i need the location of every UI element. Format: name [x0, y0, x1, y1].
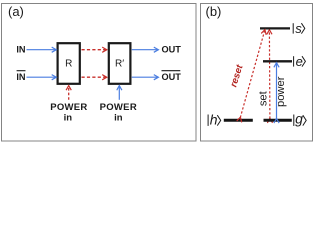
svg-text:IN: IN — [16, 72, 26, 82]
svg-text:IN: IN — [16, 44, 26, 54]
svg-text:g: g — [295, 111, 303, 127]
svg-text:e: e — [296, 54, 303, 69]
svg-text:h: h — [210, 112, 218, 128]
svg-text:OUT: OUT — [162, 72, 182, 82]
svg-text:s: s — [295, 21, 302, 36]
svg-text:R′: R′ — [115, 59, 124, 70]
svg-text:R: R — [65, 59, 72, 70]
svg-text:power: power — [275, 76, 287, 107]
svg-text:in: in — [64, 112, 73, 123]
svg-text:(a): (a) — [8, 4, 24, 19]
svg-text:set: set — [257, 90, 269, 106]
svg-text:OUT: OUT — [162, 44, 182, 54]
svg-text:(b): (b) — [206, 4, 222, 19]
svg-text:in: in — [114, 112, 123, 123]
